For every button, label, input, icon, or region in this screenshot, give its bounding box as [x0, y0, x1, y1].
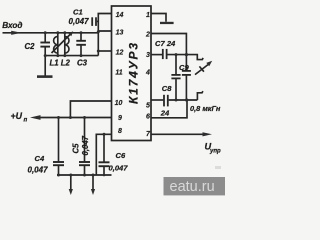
svg-text:C3: C3 — [77, 59, 88, 68]
ground bar pin1 — [160, 22, 174, 24]
svg-text:C2: C2 — [25, 42, 36, 51]
svg-text:К174УР3: К174УР3 — [127, 41, 141, 104]
pin numbers left — [115, 12, 124, 135]
svg-text:C6: C6 — [116, 151, 126, 160]
svg-text:eatu.ru: eatu.ru — [170, 179, 215, 195]
svg-text:0,047: 0,047 — [69, 17, 90, 26]
inductor L1 — [54, 33, 58, 56]
svg-text:C1: C1 — [73, 8, 83, 17]
svg-text:C4: C4 — [35, 154, 45, 163]
node dots input rail — [44, 30, 100, 34]
wire ground rail — [57, 174, 112, 176]
svg-text:9: 9 — [118, 115, 122, 122]
node output arrow — [203, 132, 213, 136]
svg-text:4: 4 — [145, 69, 150, 76]
node dots bottom rail — [44, 50, 100, 58]
svg-text:0,047: 0,047 — [81, 135, 90, 155]
capacitor C8 (series, pin 5) — [151, 84, 197, 117]
svg-text:0,047: 0,047 — [109, 164, 129, 173]
svg-text:2: 2 — [145, 31, 150, 38]
svg-text:5: 5 — [146, 103, 150, 110]
capacitor C7 — [151, 39, 186, 59]
svg-text:C7 24: C7 24 — [155, 39, 176, 48]
node dots right side — [175, 53, 189, 102]
capacitor C2 — [25, 33, 51, 56]
wire pin13 stub — [98, 31, 111, 32]
svg-text:10: 10 — [115, 100, 123, 107]
svg-text:8: 8 — [118, 128, 122, 135]
wire to coil top terminal — [186, 55, 203, 60]
svg-text:6: 6 — [146, 114, 150, 121]
capacitor C1 — [69, 8, 99, 27]
node +Un arrow — [30, 115, 41, 120]
label +Un — [11, 111, 28, 124]
capacitor C6 — [96, 134, 128, 175]
svg-text:24: 24 — [160, 108, 170, 117]
capacitor C3 — [76, 33, 87, 68]
wire pin1 to ground — [151, 14, 166, 22]
svg-text:п: п — [24, 118, 28, 124]
svg-text:14: 14 — [116, 12, 124, 19]
wire pin6 riser — [151, 100, 187, 118]
wire pin7 output — [151, 133, 207, 135]
wire pin2 — [151, 34, 186, 55]
inductor L2 — [65, 33, 69, 56]
svg-text:12: 12 — [116, 49, 124, 56]
wire pin12 stub — [98, 50, 111, 52]
tuning arrow through L1 L2 — [52, 31, 74, 53]
ground arrow right — [91, 175, 95, 195]
capacitor C9 trimmer — [179, 55, 212, 100]
svg-text:0,8 мкГн: 0,8 мкГн — [190, 104, 221, 113]
ground under C2 — [37, 56, 53, 78]
svg-text:3: 3 — [146, 52, 150, 59]
wire pin10 stub — [70, 101, 111, 118]
capacitor (vertical, node A) — [171, 55, 180, 100]
svg-text:0,047: 0,047 — [28, 165, 49, 174]
svg-text:11: 11 — [115, 69, 122, 76]
svg-text:1: 1 — [146, 12, 150, 19]
pin numbers right — [145, 12, 151, 138]
capacitor C4 — [28, 118, 65, 176]
node input arrow — [11, 31, 21, 35]
svg-text:упр: упр — [209, 149, 221, 155]
svg-text:C8: C8 — [162, 84, 172, 93]
wire input rail — [3, 32, 99, 34]
op-amp U1 К174УР3 IC box — [112, 6, 152, 141]
wire +Un rail (pin 9) — [39, 117, 112, 119]
capacitor C5 — [72, 118, 91, 176]
svg-text:13: 13 — [116, 29, 124, 36]
ground arrow left — [69, 175, 73, 195]
wire coil bottom terminal — [197, 91, 203, 100]
label Uупр — [205, 142, 222, 155]
wire riser pin14/pin12 — [98, 14, 111, 56]
svg-text:+U: +U — [11, 111, 23, 121]
svg-text:L1 L2: L1 L2 — [50, 59, 71, 68]
svg-text:C9: C9 — [179, 63, 189, 72]
node dots bottom rails — [57, 116, 106, 177]
watermark eatu.ru — [215, 166, 221, 169]
svg-text:C5: C5 — [72, 143, 81, 154]
wire tank bottom rail — [45, 55, 98, 57]
svg-text:Вход: Вход — [2, 21, 22, 30]
